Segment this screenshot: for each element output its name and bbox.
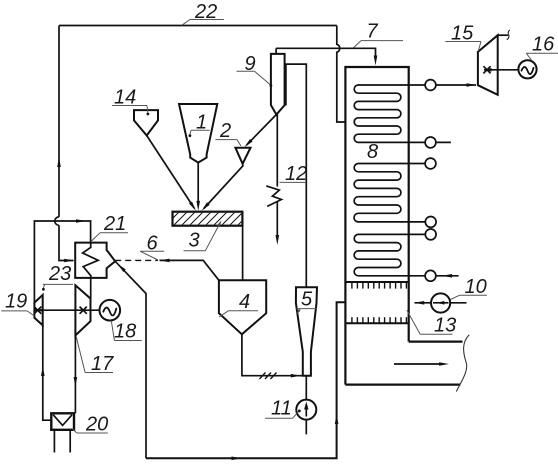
- line 7 horizontal to boiler 8 with down arrow: [276, 48, 375, 59]
- steam turbine 15: [478, 35, 498, 95]
- generator 16 circle with tilde: [518, 60, 536, 78]
- svg-text:21: 21: [103, 213, 126, 235]
- svg-text:12: 12: [285, 163, 307, 185]
- bed grate 3 hatched block: [164, 210, 253, 227]
- svg-text:18: 18: [114, 321, 136, 343]
- svg-text:19: 19: [5, 291, 27, 313]
- air grid 13 upper row: [345, 281, 408, 283]
- boiler outlet gas duct with arrow and wavy break: [409, 341, 463, 343]
- wire funnel 2 discharge diagonal to bed 3, arrow: [204, 164, 243, 209]
- svg-text:5: 5: [301, 289, 313, 311]
- steam outlet tap to turbine 15 with node circle and arrow: [409, 84, 476, 86]
- hopper 4: [219, 280, 266, 334]
- tap with node circle at y163: [409, 163, 425, 165]
- turbine 17: [75, 285, 90, 335]
- tap with node circle at y143: [409, 141, 451, 143]
- svg-text:16: 16: [532, 34, 555, 56]
- svg-text:3: 3: [189, 230, 200, 252]
- wire HX21 coil outlet down to turbine 17 inlet: [90, 278, 92, 299]
- boiler 8 casing: [345, 67, 408, 385]
- wire cyclone 9 solids diagonal to funnel 2, arrow: [247, 115, 277, 145]
- wire compressor 19 discharge: up, right with arrow, down into HX21 coil: [34, 221, 90, 303]
- air grid 13 lower row: [345, 322, 408, 324]
- svg-text:11: 11: [271, 398, 292, 420]
- dashed line 6 from solids line into HX21 point: [115, 259, 158, 261]
- turbine 15 exhaust stub with wavy break: [498, 34, 508, 36]
- wire cyclone 5 underflow to pump 11: [305, 376, 307, 435]
- generator 18 circle with tilde: [100, 300, 121, 321]
- svg-text:7: 7: [367, 21, 379, 43]
- svg-text:13: 13: [434, 315, 456, 337]
- wire cooler 20 outlet up to compressor 19 suction, arrow up: [43, 325, 52, 420]
- feeder funnel 2: [235, 148, 250, 164]
- cyclone 5: [296, 287, 317, 375]
- hopper 14: [134, 110, 158, 135]
- svg-text:23: 23: [48, 263, 71, 285]
- boiler 8 heating coil upper bundle: [354, 85, 409, 142]
- wire hopper 1 discharge down to bed 3, arrow: [197, 163, 199, 202]
- wire recirculation: from bottom main up-left into HX21 point, arrow: [115, 261, 146, 458]
- pump 11 circle with up arrow: [296, 400, 316, 420]
- wire hopper 4 outlet down and right with break marks and arrow: [242, 334, 303, 375]
- svg-text:20: 20: [85, 414, 108, 436]
- svg-text:2: 2: [219, 120, 231, 142]
- hopper 1: [179, 104, 217, 163]
- heat exchanger 21 internal coil zigzag: [83, 243, 99, 278]
- svg-text:4: 4: [239, 291, 250, 313]
- tap pair with touching node circles: [409, 222, 426, 235]
- wire line 22 top horizontal with hop over line 7: [59, 25, 337, 27]
- cyclone 9: [271, 54, 285, 115]
- boiler 8 heating coil lower bundle: [354, 234, 409, 275]
- svg-text:17: 17: [91, 353, 114, 375]
- wire hopper 14 discharge diagonal to bed 3, arrow: [147, 136, 195, 209]
- heat exchanger 21 body with right point: [75, 243, 115, 278]
- turbine 15 shaft with X and arrow: [484, 69, 518, 71]
- wire cyclone 9 gas outlet to line 7: [275, 48, 277, 54]
- shaft line 19-17-18 with coupling X marks: [34, 309, 99, 311]
- cooler 20 water pipes: [54, 430, 70, 453]
- wire left vertical from junction up to line 22, arrow up, hop over horizontal, down to HX21 inlet: [59, 26, 74, 261]
- standpipe duct from cap down to cyclone 5: [286, 64, 306, 287]
- svg-text:8: 8: [367, 141, 378, 163]
- feedwater inlet tap with node circle and arrow: [409, 275, 459, 277]
- wire turbine 17 exhaust down to cooler 20: [74, 335, 76, 413]
- compressor 19: [34, 295, 42, 325]
- wire bottom main line with arrow, up right side into boiler, arrow up: [146, 302, 345, 458]
- solids return line 12 with expansion zigzag and down arrow: [276, 115, 278, 237]
- fan 10 circle with through line and arrows: [431, 293, 450, 312]
- wire bed 3 right edge down to hopper 4: [242, 226, 244, 281]
- boiler 8 heating coil middle bundle: [354, 164, 409, 222]
- cooler 20 box with chevron: [51, 413, 74, 430]
- svg-text:10: 10: [465, 276, 487, 298]
